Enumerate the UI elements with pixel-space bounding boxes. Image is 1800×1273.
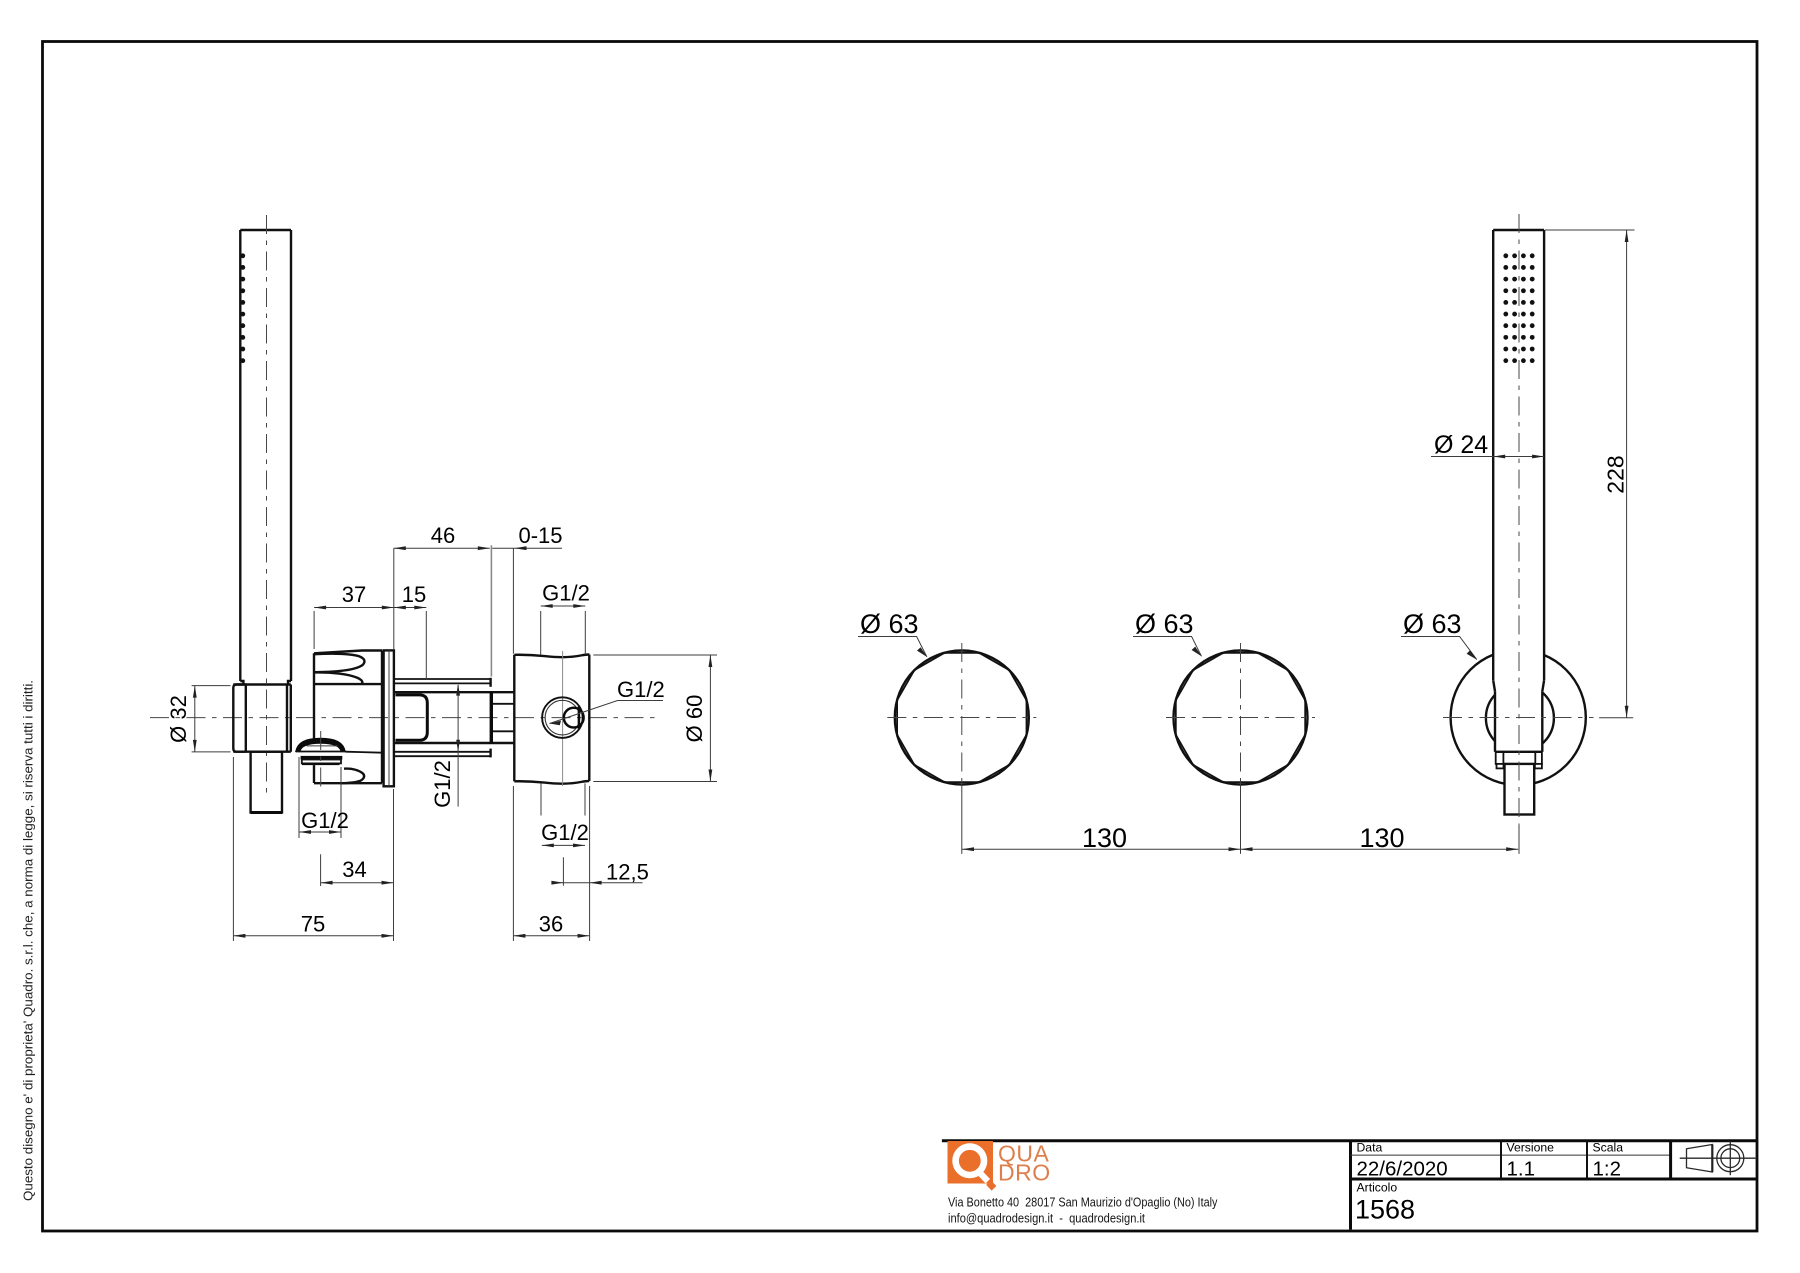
svg-text:Ø 60: Ø 60 bbox=[682, 695, 707, 743]
svg-text:Ø 24: Ø 24 bbox=[1434, 431, 1488, 459]
svg-text:12,5: 12,5 bbox=[606, 860, 649, 885]
svg-text:1.1: 1.1 bbox=[1507, 1158, 1536, 1181]
svg-text:Versione: Versione bbox=[1507, 1140, 1555, 1154]
svg-text:Ø 63: Ø 63 bbox=[860, 609, 919, 639]
svg-text:G1/2: G1/2 bbox=[301, 808, 349, 833]
svg-text:0-15: 0-15 bbox=[518, 523, 562, 548]
svg-text:130: 130 bbox=[1359, 823, 1404, 853]
svg-text:Data: Data bbox=[1357, 1140, 1383, 1154]
svg-text:Scala: Scala bbox=[1593, 1140, 1624, 1154]
svg-text:130: 130 bbox=[1082, 823, 1127, 853]
svg-text:75: 75 bbox=[301, 912, 325, 937]
svg-text:G1/2: G1/2 bbox=[541, 820, 589, 845]
svg-text:46: 46 bbox=[431, 523, 455, 548]
svg-text:Via Bonetto 40 28017 San Maur: Via Bonetto 40 28017 San Maurizio d'Opag… bbox=[948, 1195, 1218, 1210]
svg-text:G1/2: G1/2 bbox=[617, 677, 665, 702]
svg-text:15: 15 bbox=[402, 582, 426, 607]
svg-text:34: 34 bbox=[342, 857, 366, 882]
svg-text:Ø 63: Ø 63 bbox=[1135, 609, 1194, 639]
svg-text:info@quadrodesign.it - quadr: info@quadrodesign.it - quadrodesign.it bbox=[948, 1211, 1145, 1226]
svg-text:1:2: 1:2 bbox=[1593, 1158, 1622, 1181]
svg-text:228: 228 bbox=[1603, 455, 1629, 493]
svg-text:Articolo: Articolo bbox=[1357, 1181, 1398, 1195]
svg-text:G1/2: G1/2 bbox=[542, 581, 590, 606]
svg-text:36: 36 bbox=[539, 912, 563, 937]
svg-text:37: 37 bbox=[342, 582, 366, 607]
svg-text:1568: 1568 bbox=[1355, 1195, 1415, 1225]
svg-text:DRO: DRO bbox=[998, 1160, 1051, 1186]
svg-text:Questo disegno e' di proprieta: Questo disegno e' di proprieta' Quadro. … bbox=[21, 680, 36, 1201]
svg-text:Ø 32: Ø 32 bbox=[166, 695, 191, 743]
svg-text:G1/2: G1/2 bbox=[430, 760, 455, 808]
svg-text:22/6/2020: 22/6/2020 bbox=[1357, 1158, 1448, 1181]
svg-text:Ø 63: Ø 63 bbox=[1403, 609, 1462, 639]
